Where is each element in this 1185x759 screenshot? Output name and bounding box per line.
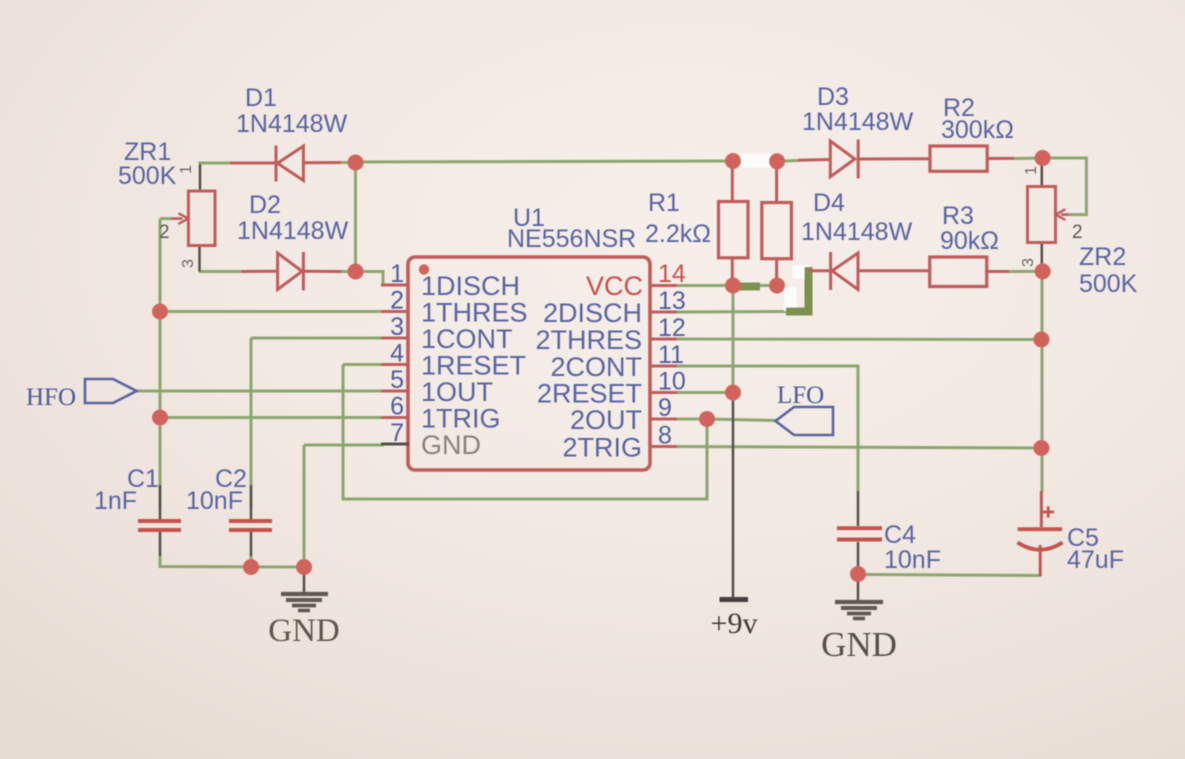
capacitor C5 plus sign <box>1043 511 1055 514</box>
node R1b bottom <box>769 278 785 294</box>
wire IC pin6 1TRIG <box>160 416 383 419</box>
IC pin 11 stub <box>649 365 677 368</box>
wire ZR2 wiper loop <box>1043 158 1087 215</box>
capacitor C5 leads <box>1040 491 1043 527</box>
svg-text:HFO: HFO <box>26 384 76 411</box>
svg-text:4: 4 <box>390 340 404 368</box>
node GND left <box>296 559 312 575</box>
svg-text:2THRES: 2THRES <box>535 325 642 355</box>
svg-text:1TRIG: 1TRIG <box>421 404 501 434</box>
diode D2 body <box>278 253 302 290</box>
svg-text:1: 1 <box>178 165 195 174</box>
svg-text:R3: R3 <box>942 202 974 230</box>
diode D1 leads <box>230 162 276 165</box>
IC pin1 marker <box>419 264 429 274</box>
IC pin 13 stub <box>649 311 677 314</box>
node R1a top <box>725 153 741 169</box>
svg-text:10: 10 <box>658 368 686 396</box>
wire IC pin10 2RESET <box>677 391 733 394</box>
node D2-out <box>348 264 364 280</box>
svg-text:+9v: +9v <box>711 607 758 640</box>
svg-text:11: 11 <box>658 341 684 369</box>
junction node dots <box>152 150 1051 582</box>
resistor R1b leads <box>775 161 778 202</box>
IC pin 1 stub <box>381 284 409 287</box>
svg-text:C4: C4 <box>884 521 916 549</box>
svg-text:10nF: 10nF <box>186 487 243 515</box>
IC pin 4 stub <box>381 363 409 366</box>
wire 1RESET loop under IC <box>343 365 707 500</box>
wire IC pin3 1CONT <box>251 337 383 340</box>
svg-text:500K: 500K <box>118 162 177 190</box>
diode D2 leads <box>241 270 278 273</box>
node 2THRES junction <box>1033 332 1049 348</box>
svg-text:14: 14 <box>658 260 686 288</box>
svg-text:12: 12 <box>658 314 686 342</box>
svg-text:2OUT: 2OUT <box>570 405 642 435</box>
node 1TRIG junction <box>152 410 168 426</box>
svg-text:1CONT: 1CONT <box>421 324 513 354</box>
svg-text:2: 2 <box>159 222 170 243</box>
wire IC pin9 2OUT to LFO <box>677 419 776 421</box>
IC pin 7 stub <box>381 443 409 446</box>
C1 lower lead <box>159 532 162 556</box>
ground symbol left <box>281 594 328 611</box>
wire VCC rail down <box>732 286 735 393</box>
resistor R2 body <box>930 146 987 171</box>
wire IC pin2 1THRES <box>160 310 383 313</box>
svg-text:GND: GND <box>421 430 481 460</box>
svg-text:1nF: 1nF <box>94 487 137 515</box>
capacitor C2 plates <box>229 519 272 523</box>
node ZR2 pin3 <box>1035 263 1051 279</box>
wire IC pin12 2THRES <box>677 338 1042 342</box>
resistor R3 body <box>930 257 987 287</box>
capacitor C1 plates <box>138 519 181 523</box>
wire ZR1 pin1 to D1 <box>199 162 231 165</box>
resistor R3 right lead <box>987 270 1009 273</box>
wire C2 vertical <box>250 338 253 508</box>
diode D1 body <box>278 146 304 181</box>
svg-text:3: 3 <box>180 259 197 268</box>
svg-text:GND: GND <box>821 625 897 664</box>
wire IC pin13 2DISCH <box>677 310 786 314</box>
node C2 bottom <box>243 559 259 575</box>
node R1a bottom <box>725 278 741 294</box>
wire ZR1 wiper rail vertical <box>159 219 162 508</box>
wire D1 cathode to node A <box>340 161 356 164</box>
svg-text:1OUT: 1OUT <box>421 377 493 407</box>
svg-text:2RESET: 2RESET <box>537 379 642 409</box>
hand-drawn wire over VCC rail segment <box>734 283 760 291</box>
svg-text:2: 2 <box>1072 222 1083 243</box>
wire top rail R1b to D3 <box>777 159 799 163</box>
C4 upper lead <box>857 491 860 526</box>
svg-text:90kΩ: 90kΩ <box>940 227 999 255</box>
wire R2 to ZR2 pin1 node <box>1013 157 1043 161</box>
svg-text:8: 8 <box>658 422 672 450</box>
IC pin 2 stub <box>381 310 409 313</box>
ZR1 pin3 lead <box>198 246 201 272</box>
svg-text:3: 3 <box>390 313 404 341</box>
IC pin 3 stub <box>381 337 409 340</box>
svg-text:2CONT: 2CONT <box>550 352 642 382</box>
whiteout patch below pin14 line <box>784 287 797 311</box>
node 2RESET junction <box>725 385 741 401</box>
IC pin 10 stub <box>649 391 677 394</box>
node ZR2 pin1 <box>1035 150 1051 166</box>
resistor R1b body <box>762 203 792 259</box>
svg-text:500K: 500K <box>1079 270 1138 298</box>
svg-text:13: 13 <box>658 287 686 315</box>
IC pin 9 stub <box>649 418 677 421</box>
C2 upper lead <box>250 485 253 519</box>
svg-text:5: 5 <box>390 366 404 394</box>
ZR2 pin1 lead <box>1041 158 1044 187</box>
svg-text:1: 1 <box>390 260 404 288</box>
capacitor C5 curved plate <box>1018 543 1063 550</box>
C4 lower lead <box>857 542 860 574</box>
svg-text:NE556NSR: NE556NSR <box>507 225 636 253</box>
svg-text:1DISCH: 1DISCH <box>421 271 520 301</box>
wire top rail node A to R1 top <box>356 161 734 162</box>
capacitor C5 top plate <box>1018 527 1062 531</box>
svg-text:7: 7 <box>390 419 404 447</box>
svg-text:1N4148W: 1N4148W <box>236 110 348 138</box>
svg-text:6: 6 <box>390 393 404 421</box>
ground symbol right <box>835 602 883 619</box>
GND lead left <box>303 567 306 592</box>
whiteout patch near D4 anode <box>792 265 809 279</box>
svg-text:2TRIG: 2TRIG <box>562 433 642 463</box>
wire right rail ZR2 pin3 down <box>1041 271 1044 492</box>
node 2OUT junction <box>699 411 715 427</box>
svg-text:2DISCH: 2DISCH <box>543 298 642 328</box>
C2 lower lead <box>250 532 253 556</box>
svg-text:LFO: LFO <box>777 382 824 409</box>
ZR2 pin3 lead <box>1041 243 1044 272</box>
svg-text:10nF: 10nF <box>884 546 941 574</box>
svg-text:1: 1 <box>1023 166 1040 175</box>
svg-text:47uF: 47uF <box>1067 546 1124 574</box>
wire node B to IC pin1 <box>356 272 385 286</box>
resistor R1a leads <box>731 161 734 202</box>
GND lead right <box>857 574 860 600</box>
wire node A vertical <box>354 163 357 272</box>
whiteout patch over top rail <box>740 154 772 168</box>
power symbol +9v bar <box>720 597 749 602</box>
power lead +9v <box>732 393 735 598</box>
wire IC pin7 GND <box>304 444 384 447</box>
potentiometer ZR1 wiper arrow <box>171 217 183 220</box>
node 2TRIG junction <box>1033 440 1049 456</box>
potentiometer ZR1 body <box>188 191 215 246</box>
svg-text:9: 9 <box>658 394 672 422</box>
ZR1 pin1 lead <box>199 164 202 191</box>
wire HFO to IC pin5 1OUT <box>137 390 384 393</box>
wire C2 bottom <box>250 554 253 567</box>
wire C1 bottom <box>160 554 304 567</box>
capacitor C4 plates <box>837 526 882 530</box>
wire GND vertical left <box>303 445 306 567</box>
svg-text:D1: D1 <box>245 84 277 112</box>
svg-text:2.2kΩ: 2.2kΩ <box>645 220 711 248</box>
svg-text:1RESET: 1RESET <box>421 351 526 381</box>
wire IC pin11 2CONT to C4 <box>677 366 858 492</box>
svg-text:ZR2: ZR2 <box>1079 243 1126 271</box>
IC pin 12 stub <box>649 338 677 341</box>
svg-text:D2: D2 <box>249 191 281 219</box>
svg-text:1N4148W: 1N4148W <box>802 108 914 136</box>
hand-drawn wire D4 anode to pin13 line <box>786 267 809 312</box>
wire IC pin8 2TRIG <box>677 447 1042 449</box>
IC pin 6 stub <box>381 416 409 419</box>
wire ZR1 pin3 to D2 <box>199 270 242 273</box>
wire bottom right C4 to C5 <box>858 575 1040 576</box>
diode D3 leads <box>798 158 830 162</box>
diode D4 body <box>832 253 858 290</box>
IC pin 14 stub <box>649 284 677 287</box>
svg-text:3: 3 <box>1020 258 1037 267</box>
potentiometer ZR2 body <box>1028 187 1056 243</box>
diode D3 body <box>830 141 855 177</box>
IC pin 5 stub <box>381 390 409 393</box>
svg-text:D4: D4 <box>813 189 845 217</box>
wire R3 to ZR2 pin3 node <box>1008 270 1043 273</box>
IC pin 8 stub <box>649 445 677 448</box>
svg-text:1THRES: 1THRES <box>421 298 528 328</box>
node D1-out <box>348 155 364 171</box>
wire D2 cathode to node B <box>340 270 356 273</box>
wire IC pin4 1RESET <box>343 363 383 366</box>
diode D4 leads <box>809 269 831 272</box>
resistor R1a body <box>719 202 749 258</box>
C1 upper lead <box>159 485 162 519</box>
svg-text:300kΩ: 300kΩ <box>941 116 1014 144</box>
svg-text:D3: D3 <box>817 83 849 111</box>
op-amp/IC U1 body <box>408 257 650 470</box>
svg-text:GND: GND <box>268 613 340 649</box>
potentiometer ZR2 wiper arrow <box>1061 213 1069 216</box>
node R1b top <box>769 153 785 169</box>
node C4 bottom <box>850 566 866 582</box>
node 1THRES junction <box>152 304 168 320</box>
connector HFO <box>85 379 137 403</box>
resistor R2 right lead <box>987 157 1014 160</box>
svg-text:R1: R1 <box>648 189 680 217</box>
connector LFO <box>776 407 834 435</box>
wire ZR1 wiper horizontal <box>160 217 172 220</box>
svg-text:1N4148W: 1N4148W <box>801 218 913 246</box>
svg-text:1N4148W: 1N4148W <box>237 217 349 245</box>
wire IC pin14 VCC to R1 <box>677 284 777 287</box>
svg-text:2: 2 <box>390 287 404 315</box>
svg-text:VCC: VCC <box>586 271 643 301</box>
